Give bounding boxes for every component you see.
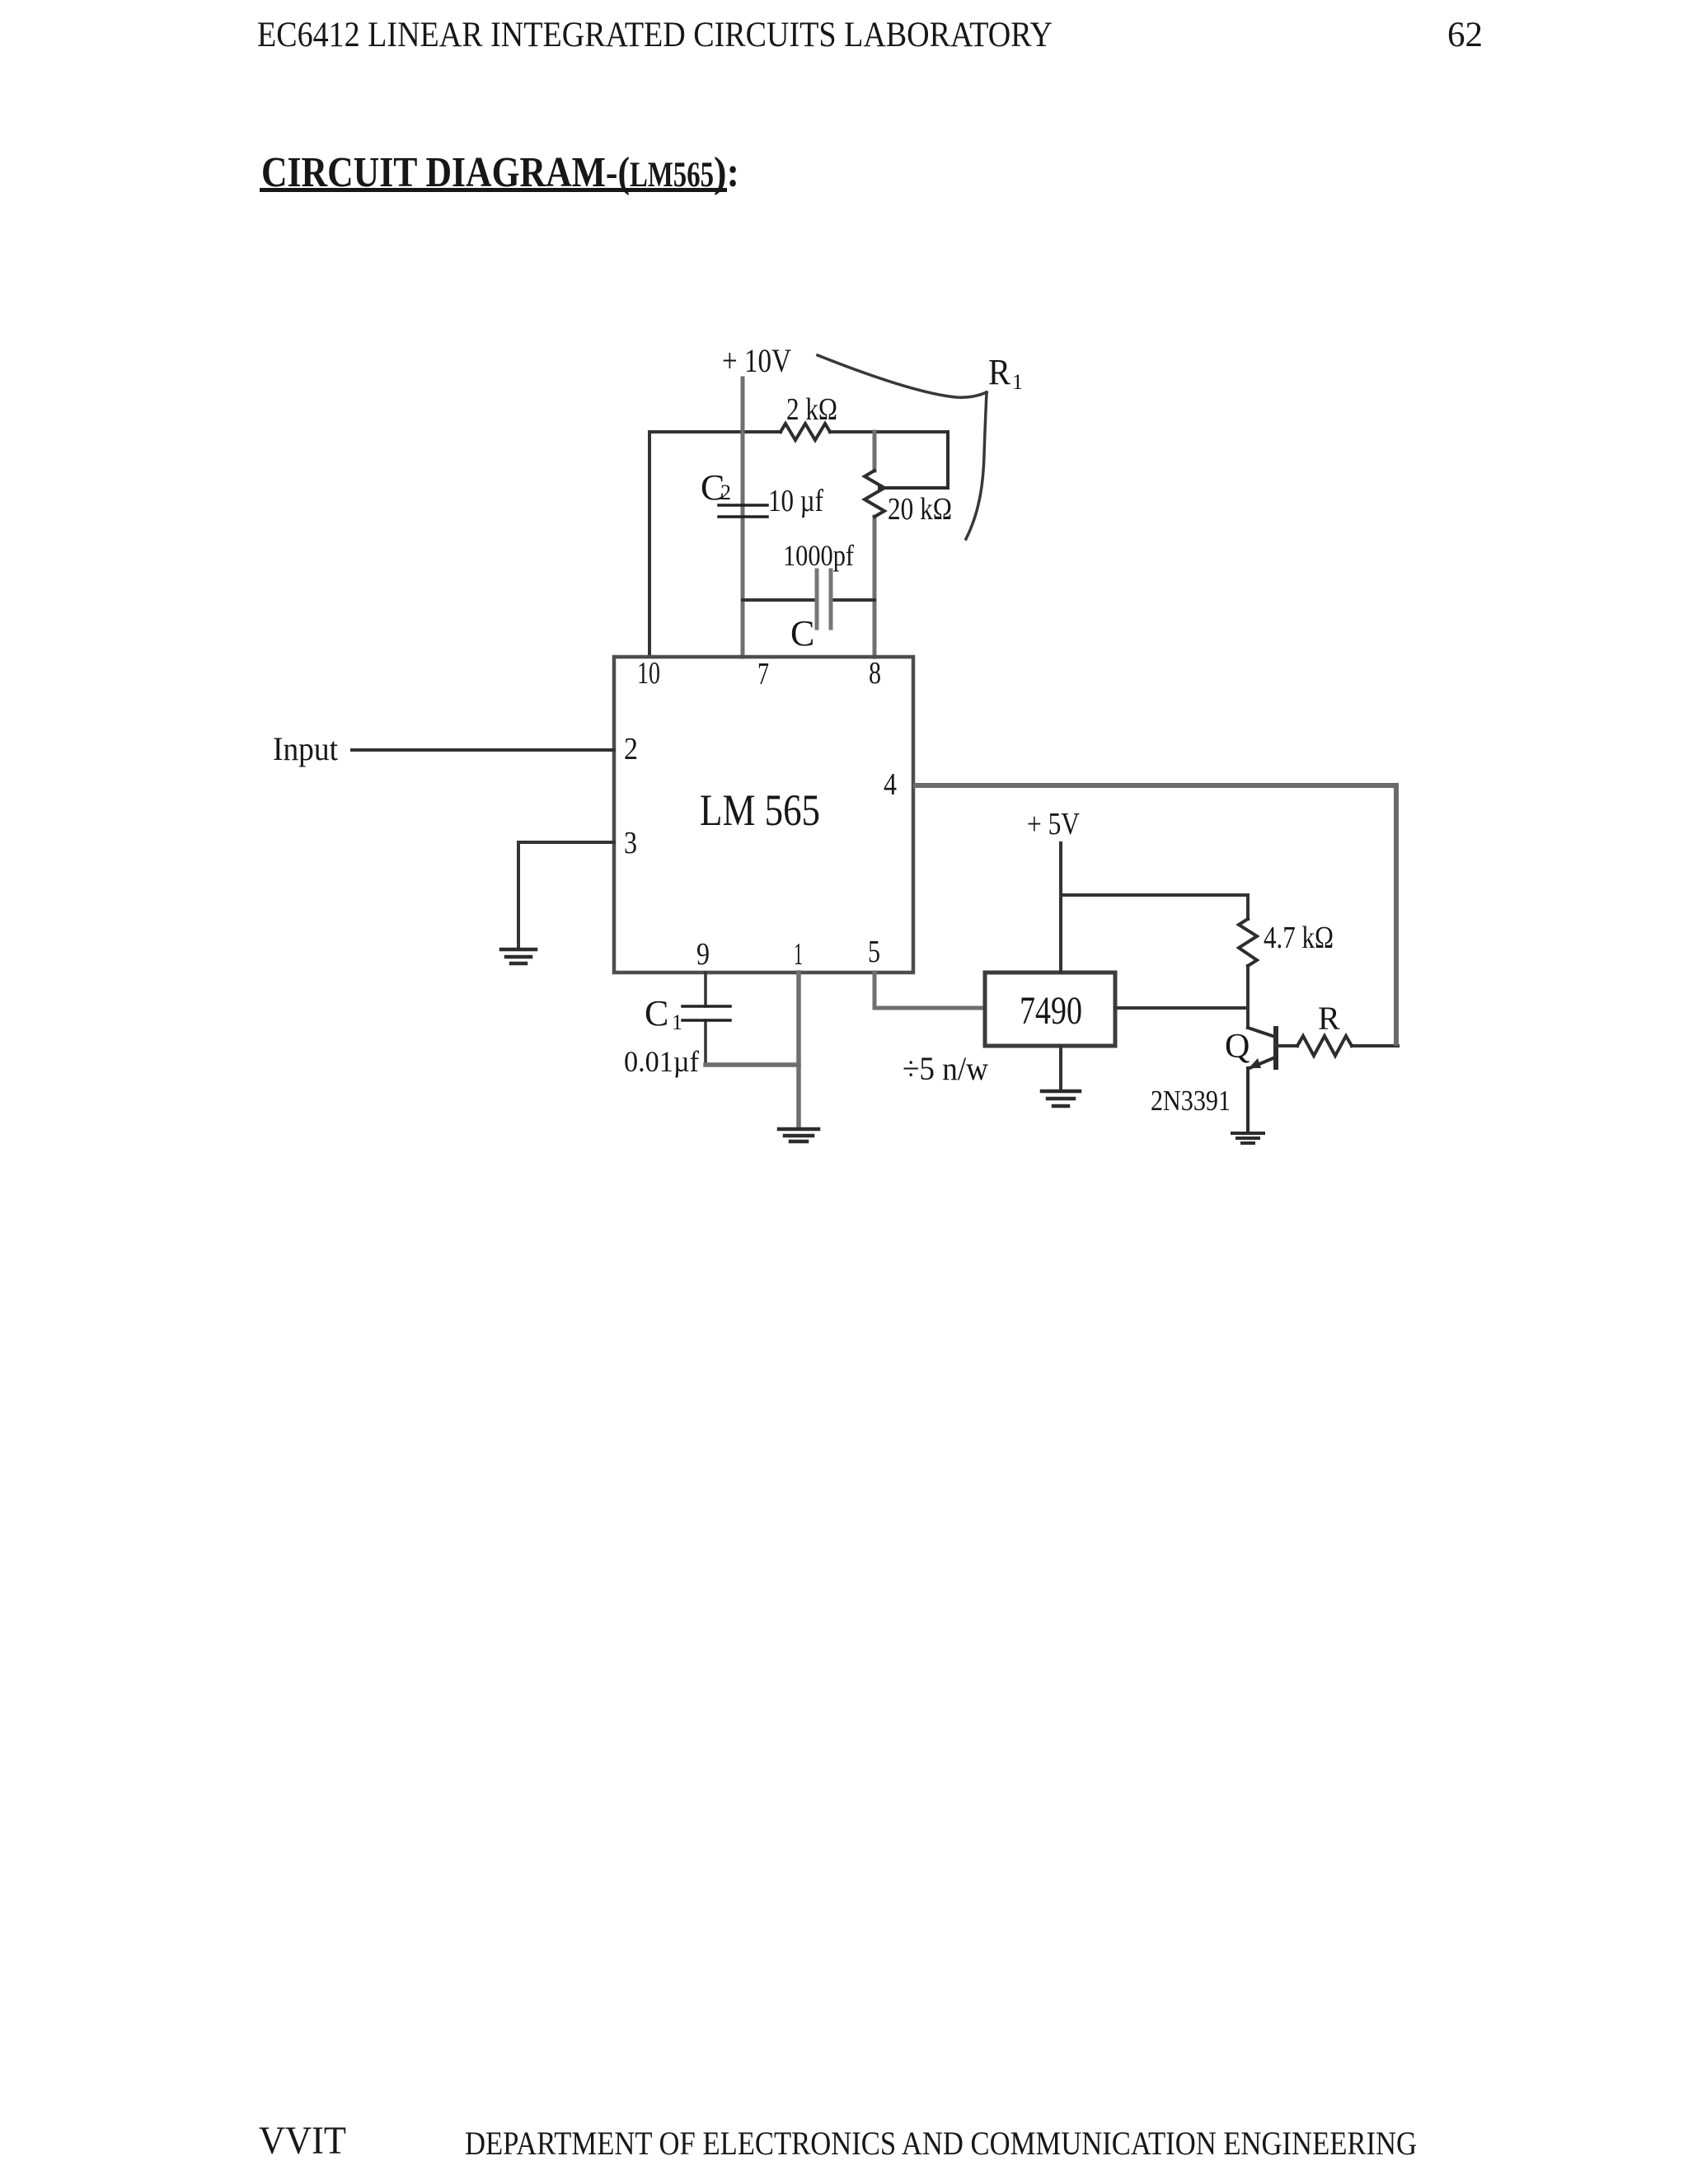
svg-text:+ 5V: + 5V (1027, 807, 1080, 841)
svg-text:LM 565: LM 565 (700, 785, 820, 835)
svg-text:7490: 7490 (1020, 989, 1082, 1033)
svg-text:VVIT: VVIT (259, 2119, 346, 2163)
svg-text:R: R (988, 352, 1011, 392)
svg-text:4.7 kΩ: 4.7 kΩ (1264, 921, 1334, 955)
svg-text:DEPARTMENT OF ELECTRONICS AND: DEPARTMENT OF ELECTRONICS AND COMMUNICAT… (465, 2125, 1417, 2162)
svg-text:8: 8 (869, 656, 881, 691)
svg-text:Q: Q (1225, 1028, 1250, 1066)
svg-text:C: C (645, 993, 668, 1033)
svg-text:4: 4 (884, 767, 897, 802)
svg-text:1: 1 (1012, 370, 1023, 394)
svg-text:10: 10 (637, 656, 660, 691)
svg-text:3: 3 (624, 826, 637, 860)
svg-text:9: 9 (696, 937, 710, 972)
svg-text:62: 62 (1447, 16, 1483, 54)
svg-text:EC6412 LINEAR INTEGRATED CIRCU: EC6412 LINEAR INTEGRATED CIRCUITS LABORA… (257, 16, 1053, 54)
svg-text:2 kΩ: 2 kΩ (786, 392, 837, 427)
svg-text:1: 1 (794, 937, 803, 972)
svg-text:÷5 n/w: ÷5 n/w (903, 1050, 988, 1087)
svg-text:2: 2 (624, 732, 638, 766)
svg-text:10 µf: 10 µf (768, 484, 823, 518)
svg-text:1: 1 (672, 1010, 682, 1034)
svg-text:R: R (1318, 1000, 1340, 1037)
svg-text:2: 2 (720, 480, 731, 504)
svg-text:C: C (790, 613, 814, 654)
svg-text:Input: Input (273, 730, 338, 767)
svg-text:0.01µf: 0.01µf (624, 1045, 699, 1078)
svg-text:7: 7 (757, 657, 769, 691)
svg-text:2N3391: 2N3391 (1151, 1085, 1231, 1117)
svg-text:20 kΩ: 20 kΩ (888, 492, 952, 527)
svg-text:+ 10V: + 10V (722, 342, 791, 379)
svg-text:5: 5 (868, 935, 880, 969)
svg-text:1000pf: 1000pf (783, 539, 854, 572)
